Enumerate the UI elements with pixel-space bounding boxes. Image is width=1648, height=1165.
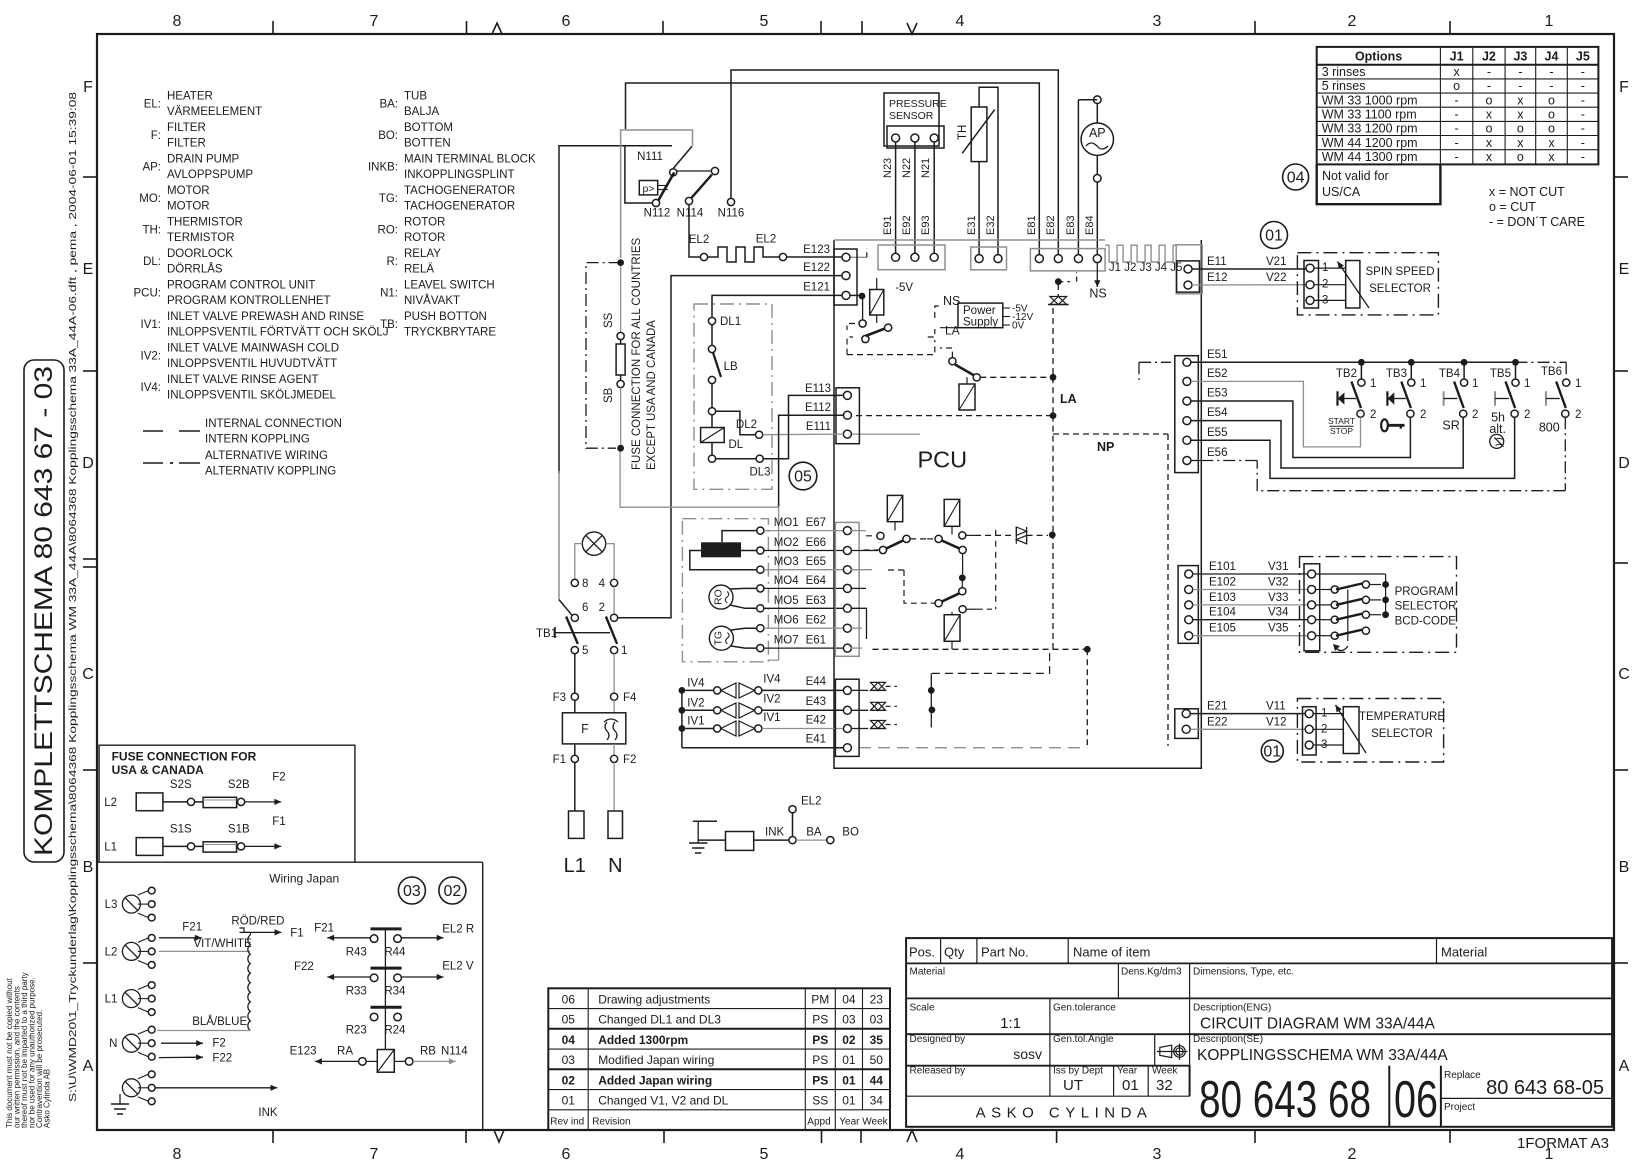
svg-text:IV2: IV2: [687, 697, 704, 709]
svg-text:2: 2: [599, 602, 605, 614]
svg-text:E112: E112: [805, 402, 831, 414]
svg-text:F: F: [1619, 79, 1629, 96]
svg-text:23: 23: [870, 992, 884, 1006]
svg-text:E122: E122: [803, 262, 830, 274]
svg-text:-: -: [1487, 65, 1491, 79]
svg-text:F21: F21: [314, 922, 334, 934]
PCU top edge gray: [834, 239, 1105, 241]
svg-text:INKB:: INKB:: [368, 162, 398, 174]
wire 5 to F3: [574, 654, 576, 693]
svg-text:x: x: [1548, 150, 1555, 164]
svg-text:E31: E31: [966, 215, 978, 235]
svg-text:D: D: [1618, 455, 1630, 472]
svg-text:Changed V1, V2 and DL: Changed V1, V2 and DL: [598, 1094, 728, 1108]
wire TB4 to E54: [1191, 417, 1463, 468]
svg-text:MOTOR: MOTOR: [167, 201, 210, 213]
thermistor TH: [971, 107, 987, 162]
wires E11 E12 to spin selector: [1192, 268, 1306, 270]
terminal INK: [698, 839, 725, 841]
svg-text:L1: L1: [104, 842, 117, 854]
svg-text:E102: E102: [1209, 577, 1236, 589]
svg-text:o: o: [1453, 79, 1460, 93]
svg-text:E111: E111: [806, 421, 831, 433]
svg-text:Wiring Japan: Wiring Japan: [269, 871, 339, 885]
svg-text:CIRCUIT DIAGRAM WM 33A/44A: CIRCUIT DIAGRAM WM 33A/44A: [1200, 1016, 1436, 1033]
svg-text:WM 33 1200 rpm: WM 33 1200 rpm: [1322, 122, 1418, 136]
lamp: [582, 532, 605, 555]
dash line E111 row to LA: [850, 433, 920, 435]
tachogenerator TG: [709, 626, 733, 650]
svg-text:2: 2: [1348, 13, 1357, 30]
svg-text:E62: E62: [806, 615, 826, 627]
note circle 01 temp: [1261, 740, 1283, 762]
svg-text:4: 4: [956, 13, 965, 30]
svg-text:SPIN SPEED: SPIN SPEED: [1365, 266, 1434, 278]
svg-text:F2: F2: [212, 1037, 225, 1049]
svg-text:INTERN KOPPLING: INTERN KOPPLING: [205, 434, 310, 446]
svg-text:3: 3: [1153, 1146, 1162, 1163]
svg-text:50: 50: [870, 1053, 884, 1067]
svg-text:Name of item: Name of item: [1073, 945, 1150, 960]
svg-text:PRESSURE: PRESSURE: [889, 98, 947, 110]
svg-text:R24: R24: [384, 1025, 406, 1037]
svg-text:TACHOGENERATOR: TACHOGENERATOR: [404, 201, 515, 213]
svg-text:EXCEPT USA AND CANADA: EXCEPT USA AND CANADA: [646, 320, 658, 470]
terminal strip E67-E61: [835, 522, 859, 656]
svg-text:-: -: [1549, 79, 1553, 93]
svg-text:x: x: [1453, 65, 1460, 79]
svg-text:SELECTOR: SELECTOR: [1369, 283, 1431, 295]
svg-text:E22: E22: [1207, 717, 1227, 729]
svg-text:NIVÅVAKT: NIVÅVAKT: [404, 294, 460, 307]
dashes around K2: [940, 348, 952, 358]
svg-text:-: -: [1581, 108, 1585, 122]
svg-text:NS: NS: [1089, 287, 1106, 301]
svg-text:o: o: [1548, 93, 1555, 107]
triac in NS line: [1057, 285, 1059, 296]
svg-text:INKOPPLINGSPLINT: INKOPPLINGSPLINT: [404, 169, 515, 181]
svg-text:F2: F2: [623, 754, 636, 766]
svg-text:E105: E105: [1209, 623, 1236, 635]
svg-text:INTERNAL CONNECTION: INTERNAL CONNECTION: [205, 418, 342, 430]
terminal strip E113-E111: [836, 388, 859, 444]
terminal strip E91-E93: [878, 245, 945, 270]
svg-text:E121: E121: [803, 282, 830, 294]
svg-text:MAIN TERMINAL BLOCK: MAIN TERMINAL BLOCK: [404, 154, 536, 166]
mains terminal L1: [569, 811, 585, 838]
svg-text:IV4: IV4: [763, 674, 781, 686]
svg-text:E43: E43: [806, 696, 826, 708]
svg-text:DL:: DL:: [143, 256, 161, 268]
NP dashed net: [1086, 649, 1088, 748]
pressure switch frame gray: [621, 130, 693, 258]
svg-text:7: 7: [370, 1146, 379, 1163]
wire N111 box to E81 top run: [626, 83, 1040, 254]
svg-text:F1: F1: [290, 927, 303, 939]
svg-text:Designed by: Designed by: [910, 1034, 966, 1045]
svg-text:02: 02: [842, 1033, 856, 1047]
wire TB2 to E52: [1191, 381, 1361, 447]
wire N114 to EL2 resistor: [689, 205, 700, 257]
svg-text:PUSH BOTTON: PUSH BOTTON: [404, 311, 487, 323]
svg-text:E67: E67: [806, 517, 826, 529]
svg-text:01: 01: [842, 1073, 856, 1087]
switch LB: [711, 325, 713, 346]
terminal L3 japan: [122, 895, 140, 913]
svg-text:DOORLOCK: DOORLOCK: [167, 248, 233, 260]
svg-text:-5V: -5V: [895, 282, 913, 294]
connector box E11 E12: [1176, 245, 1202, 294]
svg-text:J5: J5: [1576, 50, 1590, 64]
contact 2: [611, 614, 618, 621]
svg-text:WM 44 1300 rpm: WM 44 1300 rpm: [1322, 150, 1418, 164]
svg-text:x: x: [1486, 108, 1493, 122]
contact DL1: [708, 317, 715, 324]
dash bar vertical: [995, 530, 997, 609]
svg-text:BO: BO: [842, 827, 859, 839]
wire DL coil to DL3: [716, 458, 756, 460]
projection symbol: [1157, 1044, 1188, 1060]
svg-text:AVLOPPSPUMP: AVLOPPSPUMP: [167, 169, 253, 181]
svg-text:p>: p>: [643, 183, 655, 195]
node BA: [789, 837, 796, 844]
svg-text:Year Week: Year Week: [839, 1116, 888, 1127]
svg-text:INLOPPSVENTIL HUVUDTVÄTT: INLOPPSVENTIL HUVUDTVÄTT: [167, 358, 337, 370]
svg-text:Supply: Supply: [963, 317, 998, 329]
svg-text:o: o: [1517, 122, 1524, 136]
svg-text:MO1: MO1: [774, 517, 799, 529]
svg-text:NS: NS: [943, 294, 960, 308]
svg-text:TB6: TB6: [1541, 366, 1562, 378]
wire 1 to F4: [613, 654, 615, 693]
terminal strip E44-E41: [835, 679, 859, 756]
terminal N japan: [122, 1034, 140, 1052]
wires TG to MO6 MO7: [731, 628, 757, 630]
svg-text:TB2: TB2: [1336, 368, 1357, 380]
svg-text:1: 1: [1575, 378, 1581, 390]
svg-text:R34: R34: [384, 986, 406, 998]
svg-text:3 rinses: 3 rinses: [1322, 65, 1366, 79]
svg-text:o = CUT: o = CUT: [1489, 200, 1536, 214]
svg-text:Changed DL1 and DL3: Changed DL1 and DL3: [598, 1013, 721, 1027]
svg-text:DRAIN PUMP: DRAIN PUMP: [167, 154, 240, 166]
svg-text:E92: E92: [901, 215, 913, 235]
svg-text:N111: N111: [637, 151, 663, 163]
wire DL1 branch to DL2: [716, 411, 756, 435]
svg-text:E11: E11: [1207, 256, 1227, 268]
svg-text:1FORMAT A3: 1FORMAT A3: [1517, 1135, 1609, 1152]
switch TB1 poles: [566, 617, 578, 644]
svg-text:TB1: TB1: [536, 628, 557, 640]
svg-text:8: 8: [173, 13, 182, 30]
wire MO1: [722, 531, 757, 543]
pressure sensor box: [884, 93, 939, 146]
svg-text:Iss by Dept: Iss by Dept: [1053, 1066, 1103, 1077]
note circle 04: [1283, 164, 1309, 190]
note circle 01 spin: [1261, 222, 1288, 249]
svg-text:o: o: [1485, 122, 1492, 136]
svg-text:F22: F22: [212, 1053, 232, 1065]
svg-text:E63: E63: [806, 595, 826, 607]
wires MO to terminal strip: [764, 530, 844, 532]
svg-text:F1: F1: [272, 816, 285, 828]
svg-text:Added 1300rpm: Added 1300rpm: [598, 1033, 688, 1047]
svg-text:ROTOR: ROTOR: [404, 232, 445, 244]
svg-text:8: 8: [582, 578, 588, 590]
svg-text:WM 33 1100 rpm: WM 33 1100 rpm: [1322, 108, 1417, 122]
not valid for US/CA cell: [1317, 164, 1441, 204]
svg-text:DL3: DL3: [749, 467, 770, 479]
terminal strip E21 E22: [1175, 709, 1199, 739]
svg-text:E91: E91: [882, 215, 894, 235]
svg-text:V35: V35: [1268, 623, 1288, 635]
svg-text:03: 03: [403, 883, 421, 900]
svg-text:DL: DL: [729, 439, 744, 451]
svg-text:E53: E53: [1207, 388, 1227, 400]
svg-text:ASKO CYLINDA: ASKO CYLINDA: [976, 1105, 1153, 1122]
svg-text:E: E: [83, 261, 94, 278]
svg-text:Dimensions, Type, etc.: Dimensions, Type, etc.: [1193, 967, 1294, 978]
svg-text:x = NOT CUT: x = NOT CUT: [1489, 185, 1565, 199]
svg-text:EL2: EL2: [801, 796, 821, 808]
switch N114 contact: [685, 197, 692, 204]
link comb J1-J5: [1105, 245, 1176, 262]
power supply outputs: [1003, 307, 1010, 309]
svg-text:E51: E51: [1207, 349, 1227, 361]
ground symbol: [693, 820, 717, 822]
note circles 03 02: [398, 877, 425, 904]
svg-text:F1: F1: [553, 754, 566, 766]
svg-text:E55: E55: [1207, 427, 1227, 439]
svg-text:E83: E83: [1065, 215, 1077, 235]
svg-text:LEAVEL SWITCH: LEAVEL SWITCH: [404, 280, 495, 292]
svg-text:PS: PS: [812, 1033, 828, 1047]
relay coil K4: [944, 499, 960, 526]
svg-text:RELÄ: RELÄ: [404, 264, 434, 276]
fuse connection USA box: [99, 745, 355, 862]
note circle 05: [789, 462, 817, 490]
relay coil K5: [944, 615, 960, 642]
wire N F22 arrow: [159, 1056, 203, 1058]
svg-text:1: 1: [1472, 378, 1478, 390]
svg-text:L3: L3: [105, 899, 118, 911]
svg-text:SENSOR: SENSOR: [889, 110, 934, 122]
wires RO to MO4 MO5: [730, 587, 757, 590]
svg-text:PS: PS: [812, 1073, 828, 1087]
svg-text:AP:: AP:: [142, 162, 161, 174]
svg-text:THERMISTOR: THERMISTOR: [167, 217, 243, 229]
svg-text:01: 01: [1263, 744, 1281, 761]
svg-text:DL2: DL2: [736, 419, 757, 431]
wire AP bottom through E84 to NS: [1096, 182, 1098, 254]
wires E21 E22 to temp selector: [1190, 713, 1305, 715]
svg-text:80 643 68-05: 80 643 68-05: [1486, 1077, 1604, 1099]
svg-text:E44: E44: [806, 676, 827, 688]
temperature selector box: [1297, 699, 1443, 763]
svg-text:INLOPPSVENTIL SKÖLJMEDEL: INLOPPSVENTIL SKÖLJMEDEL: [167, 390, 337, 402]
svg-text:ROTOR: ROTOR: [404, 217, 445, 229]
svg-text:01: 01: [1265, 228, 1283, 245]
svg-text:E65: E65: [806, 556, 826, 568]
wire F1 to L1: [574, 763, 576, 812]
svg-text:Options: Options: [1355, 50, 1402, 64]
contact 1: [611, 647, 618, 654]
svg-text:Drawing adjustments: Drawing adjustments: [598, 992, 710, 1006]
svg-text:o: o: [1517, 150, 1524, 164]
svg-text:SELECTOR: SELECTOR: [1371, 728, 1433, 740]
svg-text:MO4: MO4: [774, 575, 800, 587]
svg-text:R44: R44: [384, 946, 406, 958]
gray stubs from E6x into PCU: [851, 530, 866, 532]
contact B to junction: [962, 554, 964, 575]
svg-text:04: 04: [1287, 170, 1305, 187]
svg-text:Week: Week: [1152, 1066, 1178, 1077]
svg-text:5: 5: [760, 1146, 769, 1163]
relay K1 contact: [859, 320, 866, 327]
svg-text:02: 02: [562, 1073, 576, 1087]
svg-text:Modified Japan wiring: Modified Japan wiring: [598, 1053, 714, 1067]
contact 4: [611, 579, 618, 586]
svg-text:FILTER: FILTER: [167, 122, 206, 134]
wire junction to fuse SS: [617, 259, 624, 266]
svg-text:IV4:: IV4:: [141, 382, 161, 394]
triacs for valve outputs: [851, 689, 868, 691]
svg-text:V21: V21: [1266, 256, 1286, 268]
svg-text:8: 8: [173, 1146, 182, 1163]
svg-text:-: -: [1581, 79, 1585, 93]
svg-text:80 643 68: 80 643 68: [1199, 1071, 1371, 1129]
svg-text:x: x: [1486, 150, 1493, 164]
svg-text:USA & CANADA: USA & CANADA: [112, 763, 205, 777]
svg-text:EL2 R: EL2 R: [442, 923, 474, 935]
svg-text:05: 05: [794, 469, 812, 486]
wire main feed vertical gray section: [558, 471, 560, 600]
svg-text:EL2: EL2: [756, 234, 776, 246]
wire TB3 to E53: [1191, 401, 1410, 458]
revision table: [548, 988, 890, 1130]
svg-text:Not valid for: Not valid for: [1322, 169, 1389, 183]
svg-text:-: -: [1455, 108, 1459, 122]
svg-text:V34: V34: [1268, 607, 1289, 619]
svg-text:VIT/WHITE: VIT/WHITE: [194, 938, 252, 950]
svg-text:5 rinses: 5 rinses: [1322, 79, 1366, 93]
svg-text:-: -: [1581, 65, 1585, 79]
svg-text:IV1: IV1: [763, 712, 780, 724]
svg-text:WM 44 1200 rpm: WM 44 1200 rpm: [1322, 136, 1418, 150]
svg-text:Material: Material: [1441, 945, 1487, 960]
svg-text:34: 34: [870, 1094, 884, 1108]
svg-text:E123: E123: [803, 244, 830, 256]
svg-text:J1: J1: [1450, 50, 1464, 64]
svg-text:E81: E81: [1026, 215, 1038, 235]
terminal strip E81-E84: [1030, 249, 1105, 271]
svg-text:DÖRRLÅS: DÖRRLÅS: [167, 263, 223, 276]
svg-text:1: 1: [1524, 378, 1530, 390]
svg-text:S2S: S2S: [170, 779, 192, 791]
svg-text:AP: AP: [1089, 126, 1106, 140]
svg-text:BA: BA: [806, 827, 822, 839]
ground symbol japan: [119, 1094, 121, 1104]
svg-text:WM 33 1000 rpm: WM 33 1000 rpm: [1322, 93, 1418, 107]
svg-text:3: 3: [1153, 13, 1162, 30]
wire F3 to filter: [574, 700, 576, 713]
svg-text:START: START: [1328, 416, 1355, 426]
junction below E82 with dash stub: [1055, 278, 1062, 285]
svg-text:MO6: MO6: [774, 615, 799, 627]
svg-text:VÄRMEELEMENT: VÄRMEELEMENT: [167, 106, 262, 118]
svg-text:S2B: S2B: [228, 779, 250, 791]
svg-text:Power: Power: [963, 305, 996, 317]
svg-text:TACHOGENERATOR: TACHOGENERATOR: [404, 185, 515, 197]
spin speed selector box: [1297, 253, 1438, 315]
svg-text:TUB: TUB: [404, 91, 427, 103]
svg-text:J2: J2: [1482, 50, 1496, 64]
svg-text:03: 03: [842, 1013, 856, 1027]
terminal L1 japan: [122, 990, 140, 1008]
svg-text:EL:: EL:: [144, 99, 161, 111]
door lock coil DL: [711, 415, 713, 428]
svg-text:06: 06: [562, 992, 576, 1006]
svg-text:RÖD/RED: RÖD/RED: [231, 915, 284, 927]
svg-text:INK: INK: [765, 827, 785, 839]
svg-text:ALTERNATIV KOPPLING: ALTERNATIV KOPPLING: [205, 466, 336, 478]
contact 8: [571, 579, 578, 586]
svg-text:x: x: [1517, 136, 1524, 150]
svg-text:R23: R23: [346, 1025, 367, 1037]
svg-text:Dens.Kg/dm3: Dens.Kg/dm3: [1121, 967, 1182, 978]
title block grid: [906, 938, 1612, 1127]
wiring japan box: [482, 862, 484, 1129]
svg-text:1: 1: [621, 645, 627, 657]
svg-text:02: 02: [444, 883, 462, 900]
svg-text:F:: F:: [151, 130, 161, 142]
svg-text:N23: N23: [882, 158, 894, 178]
svg-text:-: -: [1581, 93, 1585, 107]
svg-text:E103: E103: [1209, 592, 1236, 604]
wire L2 vit/white to coil: [159, 950, 251, 952]
svg-text:IV1: IV1: [687, 716, 704, 728]
svg-text:Description(ENG): Description(ENG): [1193, 1003, 1271, 1014]
svg-text:Revision: Revision: [592, 1116, 630, 1127]
svg-text:7: 7: [370, 13, 379, 30]
wire MO3: [690, 551, 757, 570]
svg-text:E52: E52: [1207, 368, 1227, 380]
svg-text:35: 35: [870, 1033, 884, 1047]
drain pump AP terminal top: [1094, 96, 1102, 104]
svg-text:E104: E104: [1209, 607, 1236, 619]
svg-text:INLET VALVE RINSE AGENT: INLET VALVE RINSE AGENT: [167, 374, 318, 386]
svg-text:-: -: [1455, 136, 1459, 150]
svg-text:N116: N116: [718, 208, 745, 220]
svg-text:Released by: Released by: [910, 1066, 966, 1077]
svg-text:E123: E123: [290, 1046, 317, 1058]
node N116: [727, 198, 734, 205]
terminal F1: [574, 744, 576, 755]
svg-text:4: 4: [599, 578, 606, 590]
svg-text:C: C: [1618, 666, 1630, 683]
wire F4 to filter: [613, 700, 615, 713]
svg-text:R33: R33: [346, 986, 367, 998]
rotor RO: [709, 585, 733, 609]
svg-text:2: 2: [1472, 409, 1478, 421]
japan resistor network R23 R24: [371, 1006, 402, 1009]
svg-text:R43: R43: [346, 946, 367, 958]
power supply box: [958, 303, 1003, 328]
pressure sensor terminals: [887, 126, 944, 148]
changeover relay K2 middle: [949, 358, 956, 365]
svg-text:TH: TH: [957, 125, 969, 140]
svg-text:IV1:: IV1:: [141, 319, 161, 331]
